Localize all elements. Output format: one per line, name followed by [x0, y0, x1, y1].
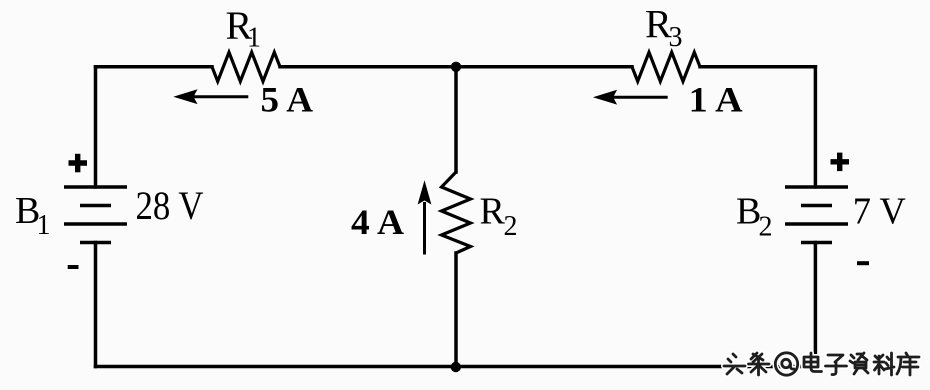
svg-text:7 V: 7 V: [853, 191, 907, 233]
svg-text:1 A: 1 A: [689, 80, 743, 120]
svg-text:28 V: 28 V: [136, 183, 204, 228]
svg-text:1: 1: [37, 210, 51, 241]
svg-text:3: 3: [669, 22, 683, 53]
svg-text:5 A: 5 A: [261, 80, 314, 120]
svg-text:1: 1: [247, 23, 261, 54]
svg-text:2: 2: [504, 211, 518, 242]
svg-text:4 A: 4 A: [351, 202, 404, 242]
svg-text:2: 2: [759, 212, 773, 243]
svg-text:R: R: [480, 191, 506, 233]
